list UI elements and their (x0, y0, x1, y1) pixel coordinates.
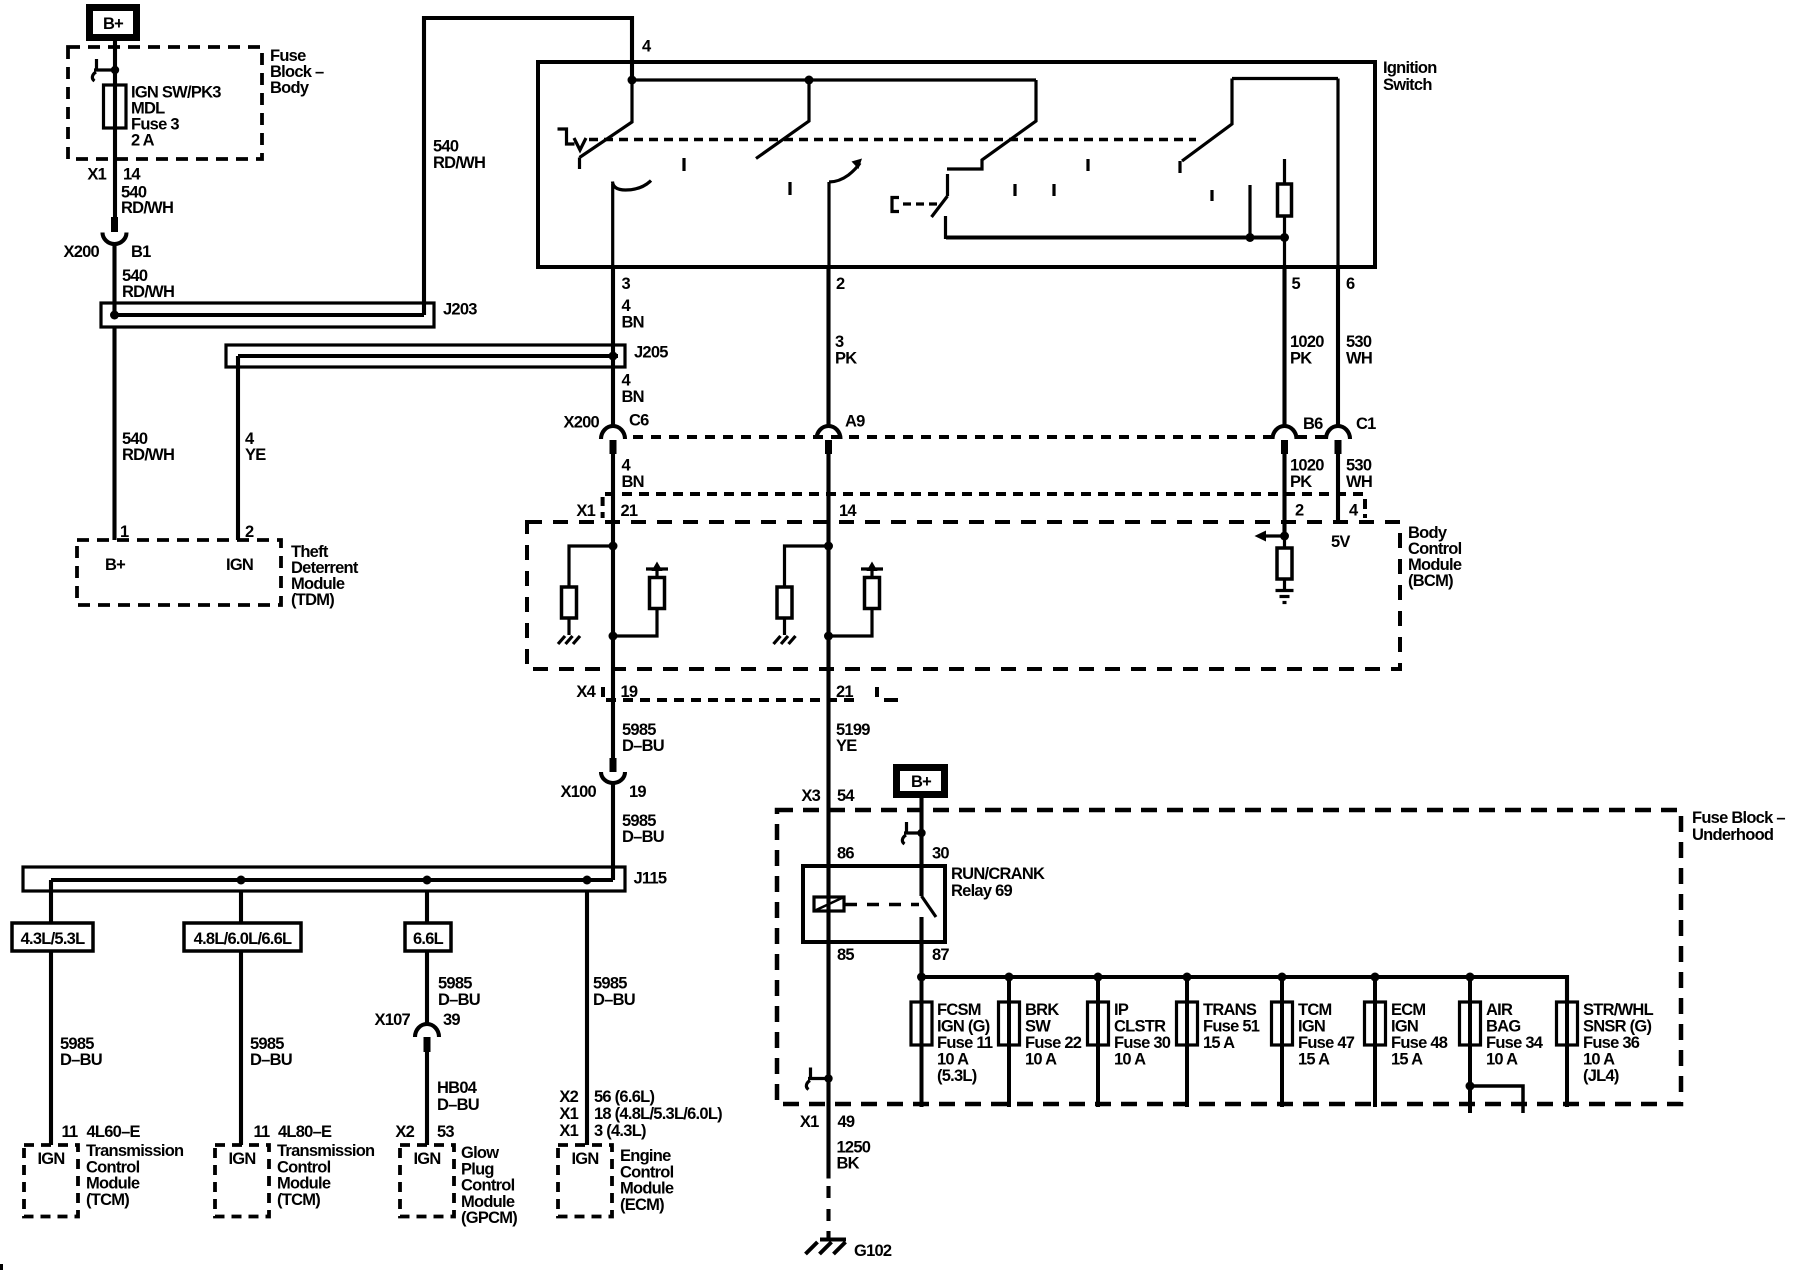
rotary wiper arc (bank 1) to pin 3 (613, 181, 652, 191)
label Engine Control Module (ECM) (620, 1147, 674, 1214)
svg-text:Glow: Glow (461, 1144, 499, 1162)
svg-text:56 (6.6L): 56 (6.6L) (594, 1088, 654, 1106)
svg-text:Control: Control (620, 1163, 674, 1181)
svg-text:IGN: IGN (37, 1150, 64, 1168)
label 5985 D-BU (622, 721, 664, 755)
svg-text:(GPCM): (GPCM) (461, 1209, 517, 1227)
label Fuse 48 (1391, 1001, 1448, 1069)
fuse bus rail (922, 977, 1568, 1002)
svg-text:53: 53 (437, 1123, 454, 1141)
svg-text:X200: X200 (563, 414, 599, 432)
junction dot (824, 542, 833, 551)
svg-text:X1: X1 (800, 1113, 819, 1131)
svg-text:5V: 5V (1331, 533, 1350, 551)
svg-text:2: 2 (836, 275, 845, 293)
svg-text:IGN: IGN (226, 556, 253, 574)
Fuse Block - Body dashed box (68, 47, 262, 159)
label Transmission Control Module (TCM) 2 (277, 1142, 375, 1209)
pin X1 49 (800, 1113, 855, 1131)
svg-text:C1: C1 (1356, 415, 1376, 433)
svg-text:X1: X1 (559, 1122, 578, 1140)
internal resistor of ignition switch (1278, 159, 1292, 238)
label X107 39 (374, 1011, 460, 1029)
linkage dashes (903, 202, 940, 205)
svg-text:B+: B+ (103, 15, 123, 33)
svg-text:C6: C6 (629, 412, 649, 430)
chassis ground (BCM, A9 input) (774, 636, 796, 644)
svg-text:10 A: 10 A (937, 1051, 969, 1069)
mechanical dashed line of switch (589, 138, 1196, 142)
wire pin 2 inside switch (827, 182, 830, 267)
connector X200 dashed line (633, 435, 1326, 439)
svg-text:PK: PK (1290, 349, 1312, 367)
blade 3 lower blade (932, 196, 948, 217)
label 1020 PK (1290, 333, 1324, 367)
label 4 YE (245, 430, 266, 464)
wire 3 PK pin2 to A9 (826, 267, 830, 426)
svg-text:X107: X107 (374, 1011, 410, 1029)
fuse element hook symbol (85 wire) (806, 1068, 828, 1090)
svg-text:IGN: IGN (228, 1150, 255, 1168)
svg-text:(TCM): (TCM) (86, 1191, 129, 1209)
splice bus J203 (101, 303, 434, 327)
svg-text:2: 2 (1295, 502, 1304, 520)
svg-text:10 A: 10 A (1025, 1051, 1057, 1069)
internal voltage bar with up arrow (861, 562, 883, 572)
label 540 RD/WH (below X200) (122, 267, 174, 301)
junction dot (609, 542, 618, 551)
pin X3 54 (801, 787, 855, 805)
label Ignition Switch (1383, 59, 1437, 94)
RUN/CRANK relay box (803, 866, 945, 942)
junction node blade2 rail (805, 76, 814, 85)
GPCM IGN dashed box (400, 1145, 454, 1217)
relay coil (814, 897, 844, 911)
label 540 RD/WH (above TDM) (122, 430, 174, 464)
label 540 RD/WH (above X200) (121, 183, 173, 217)
svg-text:19: 19 (629, 783, 646, 801)
svg-text:X3: X3 (801, 787, 820, 805)
svg-text:Module: Module (461, 1193, 515, 1211)
junction dot bottom rail left (1246, 233, 1255, 242)
svg-text:15 A: 15 A (1203, 1034, 1235, 1052)
pin labels X4 19 21 (576, 683, 853, 701)
connector A9 (817, 426, 841, 454)
pin 11 4L60-E (62, 1123, 141, 1141)
resistor (B6 input) (1277, 548, 1292, 579)
label 530 WH (1346, 333, 1372, 367)
svg-text:Control: Control (277, 1158, 331, 1176)
svg-text:4.3L/5.3L: 4.3L/5.3L (21, 930, 86, 948)
internal voltage bar with up arrow (646, 562, 668, 572)
svg-text:BN: BN (622, 473, 644, 491)
label 4 BN (622, 297, 644, 332)
svg-text:B+: B+ (105, 556, 125, 574)
resistor (pull-down, A9 input) (777, 587, 792, 618)
junction dot pin 2 node (1280, 532, 1289, 541)
svg-text:B1: B1 (131, 243, 151, 261)
svg-text:RUN/CRANK: RUN/CRANK (951, 865, 1045, 883)
label Fuse 11 (937, 1001, 993, 1085)
sense branch wire (829, 609, 873, 637)
svg-text:X2: X2 (395, 1123, 414, 1141)
svg-text:21: 21 (621, 502, 638, 520)
switch blade 1 (580, 80, 633, 169)
wire pin 14 inside BCM (826, 546, 830, 700)
Body Control Module dashed box (527, 522, 1400, 669)
svg-text:Fuse 36: Fuse 36 (1583, 1034, 1640, 1052)
wire 6.6L tag to X107 (425, 951, 429, 1024)
signal arrow to BCM logic (1255, 531, 1285, 542)
wire to TCM 4L80-E (239, 951, 243, 1145)
svg-text:540: 540 (433, 138, 459, 156)
wire 1250 BK to ground (826, 1104, 830, 1179)
svg-text:4L80–E: 4L80–E (278, 1123, 332, 1141)
internal bottom rail (946, 236, 1286, 240)
TCM IGN dashed box (4L60-E) (24, 1145, 78, 1217)
label Fuse 36 (1583, 1001, 1654, 1085)
svg-text:Switch: Switch (1383, 76, 1432, 94)
contact ticks lower row (1015, 184, 1212, 201)
fuse TCM IGN Fuse 47 (1272, 977, 1293, 1107)
svg-text:WH: WH (1346, 349, 1372, 367)
svg-text:D–BU: D–BU (60, 1051, 102, 1069)
connector X200 B1 (103, 217, 127, 244)
svg-text:Fuse 30: Fuse 30 (1114, 1034, 1171, 1052)
svg-text:BN: BN (622, 388, 644, 406)
pull-down branch wire (569, 546, 613, 587)
wire to TCM 4L60-E (49, 951, 53, 1145)
svg-text:11: 11 (254, 1123, 271, 1141)
blade 3 pivot wire (944, 216, 947, 239)
label 4 BN (below J205) (622, 372, 644, 407)
rotary wiper arc (bank 2) to pin 2 (829, 159, 862, 183)
svg-text:BAG: BAG (1486, 1018, 1520, 1036)
fuse IGN SW/PK3 MDL Fuse 3 2A (104, 85, 127, 128)
svg-text:Fuse 11: Fuse 11 (937, 1034, 993, 1052)
wire 5985 D-BU X4-19 to X100 (611, 700, 615, 758)
svg-text:RD/WH: RD/WH (122, 446, 174, 464)
accessory contact riser (1248, 185, 1251, 238)
svg-text:Relay 69: Relay 69 (951, 882, 1013, 900)
B+ power symbol (top left) (90, 8, 137, 38)
label 5985 D-BU (col 4) (593, 975, 635, 1010)
junction dot hook 85 (824, 1074, 832, 1082)
wire J115 to ECM (585, 891, 589, 1145)
svg-text:(BCM): (BCM) (1408, 572, 1453, 590)
B+ power symbol (underhood) (897, 768, 945, 795)
chassis ground (BCM, C6 input) (558, 636, 580, 644)
linkage bracket (892, 198, 899, 212)
wire B+ to relay pin 30 (919, 794, 923, 896)
svg-text:AIR: AIR (1486, 1001, 1513, 1019)
svg-text:RD/WH: RD/WH (121, 199, 173, 217)
relay switch blade (922, 896, 937, 917)
svg-text:D–BU: D–BU (250, 1051, 292, 1069)
switch blade 4 (1180, 79, 1232, 174)
label 5985 D-BU (below X100) (622, 812, 664, 846)
label Fuse 34 (1486, 1001, 1544, 1069)
label 5985 D-BU (col 3) (438, 975, 480, 1010)
svg-text:14: 14 (839, 502, 857, 520)
ECM IGN dashed box (558, 1145, 612, 1217)
svg-text:87: 87 (932, 946, 949, 964)
label 530 WH (below C1) (1346, 457, 1372, 492)
svg-text:BN: BN (622, 314, 644, 332)
pin X2 53 (395, 1123, 454, 1141)
junction node pin4 rail (628, 76, 637, 85)
svg-text:G102: G102 (854, 1242, 892, 1260)
label Theft Deterrent Module (TDM) (291, 543, 359, 609)
wire 540 RD/WH from J203 up and over to ignition switch pin 4 (424, 18, 632, 315)
connector X4 dashed line (BCM footer) (603, 687, 898, 700)
svg-text:Fuse 22: Fuse 22 (1025, 1034, 1082, 1052)
wire 5199 YE X4-21 down to fuse block (826, 700, 830, 911)
svg-text:D–BU: D–BU (437, 1096, 479, 1114)
svg-text:30: 30 (932, 845, 949, 863)
svg-text:YE: YE (245, 446, 266, 464)
svg-text:86: 86 (837, 845, 854, 863)
junction dot bottom rail right (1280, 233, 1289, 242)
switch blade 3 upper arm (947, 80, 1036, 169)
label Fuse 3 text (131, 84, 221, 150)
svg-text:6: 6 (1346, 275, 1355, 293)
fuse IP CLSTR Fuse 30 (1088, 977, 1109, 1107)
svg-text:D–BU: D–BU (438, 991, 480, 1009)
svg-text:19: 19 (621, 683, 638, 701)
wire pin 3 inside switch (611, 184, 614, 267)
junction dots on J115 (237, 876, 246, 885)
svg-text:RD/WH: RD/WH (122, 283, 174, 301)
svg-text:TRANS: TRANS (1203, 1001, 1257, 1019)
connector C1 (1326, 426, 1350, 454)
fuse TRANS Fuse 51 (1177, 977, 1198, 1107)
svg-text:X4: X4 (576, 683, 596, 701)
engine tag box 4.8L/6.0L/6.6L (184, 923, 301, 951)
svg-text:3: 3 (622, 275, 631, 293)
label Fuse 47 (1298, 1001, 1355, 1069)
wire 1020 PK B6 to BCM pin 2 (1282, 454, 1286, 536)
svg-text:J203: J203 (443, 301, 477, 319)
TCM IGN dashed box (4L80-E) (215, 1145, 269, 1217)
svg-text:Fuse 34: Fuse 34 (1486, 1034, 1544, 1052)
svg-text:PK: PK (1290, 473, 1312, 491)
svg-text:B6: B6 (1303, 415, 1323, 433)
wire J115 to 4.8L/6.0L/6.6L tag (239, 891, 243, 923)
svg-text:A9: A9 (845, 413, 865, 431)
svg-text:(5.3L): (5.3L) (937, 1067, 977, 1085)
svg-text:D–BU: D–BU (622, 828, 664, 846)
pin X1 14 (87, 166, 141, 184)
svg-text:Engine: Engine (620, 1147, 671, 1165)
sense branch wire (613, 609, 657, 637)
fuse STR/WHL SNSR Fuse 36 (1557, 1002, 1578, 1107)
svg-text:IP: IP (1114, 1001, 1129, 1019)
junction dot (824, 632, 833, 641)
svg-text:54: 54 (837, 787, 855, 805)
svg-text:5985: 5985 (438, 975, 472, 993)
svg-text:5985: 5985 (593, 975, 627, 993)
svg-text:Transmission: Transmission (277, 1142, 375, 1160)
contact tick (682, 158, 685, 171)
svg-text:IGN: IGN (1391, 1018, 1418, 1036)
junction dot J205 (609, 352, 618, 361)
wire X200 to J203 (112, 244, 116, 315)
off-sheet dashed wire to G102 (826, 1186, 830, 1228)
svg-text:14: 14 (123, 166, 141, 184)
svg-text:15 A: 15 A (1298, 1051, 1330, 1069)
label X200 C6 (563, 412, 649, 432)
svg-text:YE: YE (836, 737, 857, 755)
engine tag box 6.6L (405, 923, 451, 951)
svg-text:Transmission: Transmission (86, 1142, 184, 1160)
wire resistor to ground (567, 618, 570, 635)
junction at fuse element (111, 66, 119, 74)
svg-text:Plug: Plug (461, 1160, 494, 1178)
svg-text:IGN: IGN (1298, 1018, 1325, 1036)
pin 11 4L80-E (254, 1123, 333, 1141)
label 5199 YE (836, 721, 870, 755)
Fuse Block - Underhood dashed box (777, 810, 1681, 1104)
svg-text:(ECM): (ECM) (620, 1196, 664, 1214)
svg-text:ECM: ECM (1391, 1001, 1425, 1019)
contact tick upper row (1086, 159, 1089, 171)
label 1250 BK (837, 1139, 871, 1173)
svg-text:X1: X1 (87, 166, 106, 184)
label 4 BN (below C6) (622, 457, 644, 492)
label Glow Plug Control Module (GPCM) (461, 1144, 517, 1227)
svg-text:Module: Module (277, 1175, 331, 1193)
svg-text:Underhood: Underhood (1692, 826, 1773, 844)
internal rail to pin 6 (1232, 77, 1338, 80)
wire pin 21 inside BCM (611, 546, 615, 700)
svg-text:10 A: 10 A (1583, 1051, 1615, 1069)
svg-text:18 (4.8L/5.3L/6.0L): 18 (4.8L/5.3L/6.0L) (594, 1105, 722, 1123)
svg-text:TCM: TCM (1298, 1001, 1332, 1019)
svg-text:1020: 1020 (1290, 457, 1324, 475)
svg-text:11: 11 (62, 1123, 79, 1141)
label 3 PK (835, 333, 857, 367)
wire 4 BN pin3 to X200 C6 (611, 267, 615, 426)
svg-text:HB04: HB04 (437, 1079, 478, 1097)
svg-text:1020: 1020 (1290, 333, 1324, 351)
internal top rail (632, 78, 1036, 81)
wire 1020 PK pin5 to B6 (1282, 267, 1286, 426)
wire J115 to 4.3L/5.3L tag (49, 891, 53, 923)
svg-text:530: 530 (1346, 333, 1372, 351)
label Fuse 22 (1025, 1001, 1082, 1069)
svg-text:PK: PK (835, 349, 857, 367)
svg-text:21: 21 (836, 683, 853, 701)
wire resistor to voltage bar (655, 570, 658, 578)
wire pin 6 inside switch (1336, 79, 1339, 268)
svg-text:530: 530 (1346, 457, 1372, 475)
stray mark bottom left (0, 1264, 3, 1270)
junction dot hook (917, 829, 925, 837)
svg-text:J115: J115 (634, 870, 667, 888)
svg-text:BK: BK (837, 1155, 860, 1173)
splice bus J205 (226, 345, 625, 367)
resistor (pull-up, C6 input) (650, 578, 665, 609)
svg-text:B+: B+ (911, 773, 931, 791)
wire X100 to J115 (611, 783, 615, 880)
fuse BRK SW Fuse 22 (999, 977, 1020, 1107)
wire J115 to 6.6L tag (425, 891, 429, 923)
svg-text:10 A: 10 A (1114, 1051, 1146, 1069)
contact tick (788, 182, 791, 195)
svg-text:J205: J205 (634, 344, 668, 362)
svg-text:X200: X200 (63, 243, 99, 261)
pins X2 56 / X1 18 / X1 3 (ECM) (559, 1088, 722, 1140)
svg-text:Module: Module (620, 1180, 674, 1198)
fuse element hook symbol (B+ feed) (902, 822, 921, 844)
wire from B+ through Fuse 3 down to X200 (113, 41, 117, 217)
label 540 RD/WH (feed wire) (433, 138, 485, 173)
pull-down branch wire (785, 546, 829, 587)
svg-text:IGN: IGN (571, 1150, 598, 1168)
svg-text:Control: Control (461, 1177, 515, 1195)
wire pin2 node to resistor (1283, 536, 1286, 548)
label RUN/CRANK Relay 69 (951, 865, 1045, 900)
label X100 19 (560, 783, 646, 801)
connector B6 (1273, 426, 1297, 454)
label Fuse Block - Underhood (1692, 809, 1785, 844)
svg-text:RD/WH: RD/WH (433, 154, 485, 172)
svg-text:Control: Control (86, 1158, 140, 1176)
fuse ECM IGN Fuse 48 (1365, 977, 1386, 1107)
svg-text:(JL4): (JL4) (1583, 1067, 1619, 1085)
svg-text:D–BU: D–BU (593, 991, 635, 1009)
label Fuse Block - Body (270, 47, 324, 97)
label 1020 PK (below B6) (1290, 457, 1324, 492)
key lock symbol (558, 129, 587, 150)
label X200 B1 (63, 243, 151, 261)
connector X1 dashed line (BCM header) (603, 494, 1365, 518)
airbag branch wire (1470, 1086, 1523, 1113)
label 5985 D-BU (col 1) (60, 1035, 102, 1069)
fuse element hook symbol (Fuse 3) (92, 59, 115, 81)
svg-text:BRK: BRK (1025, 1001, 1059, 1019)
label Transmission Control Module (TCM) (86, 1142, 184, 1209)
svg-text:(TDM): (TDM) (291, 591, 334, 609)
svg-text:Fuse 47: Fuse 47 (1298, 1034, 1355, 1052)
junction dot airbag branch (1466, 1082, 1475, 1091)
switch blade 2 (756, 80, 809, 159)
svg-text:4L60–E: 4L60–E (87, 1123, 141, 1141)
svg-text:10 A: 10 A (1486, 1051, 1518, 1069)
wire resistor to voltage bar (870, 570, 873, 578)
junction dot (609, 632, 618, 641)
resistor (pull-down, C6 input) (562, 587, 577, 618)
svg-text:SW: SW (1025, 1018, 1051, 1036)
svg-text:85: 85 (837, 946, 854, 964)
label Fuse 30 (1114, 1001, 1171, 1069)
wire 4 BN C6 to BCM pin 21 (611, 454, 615, 546)
svg-text:49: 49 (838, 1113, 855, 1131)
svg-text:5: 5 (1292, 275, 1301, 293)
connector X100 (601, 758, 625, 783)
svg-text:FCSM: FCSM (937, 1001, 981, 1019)
relay linkage dashes (845, 903, 919, 907)
wire pin 5 inside switch (1283, 238, 1286, 268)
connector C6 (601, 426, 625, 454)
svg-text:3: 3 (835, 333, 844, 351)
label 5985 D-BU (col 2) (250, 1035, 292, 1069)
wire coil to pin 85 (826, 911, 830, 1104)
svg-text:39: 39 (443, 1011, 460, 1029)
svg-text:X1: X1 (559, 1105, 578, 1123)
svg-text:SNSR (G): SNSR (G) (1583, 1018, 1652, 1036)
